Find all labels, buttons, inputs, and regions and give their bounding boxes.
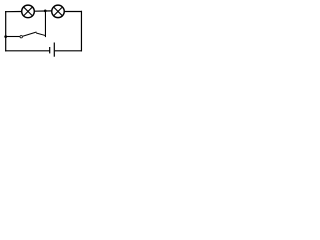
battery cell short plate (negative) (49, 47, 51, 53)
node junction dot between lamps (44, 10, 47, 13)
wire switch branch from left rail (6, 36, 20, 38)
wire left rail (5, 11, 7, 51)
wire vertical drop from node to switch contact (44, 11, 46, 37)
switch S1 blade (open) (23, 32, 37, 36)
lamp L1 (22, 5, 35, 18)
wire top rail middle segment (35, 10, 52, 12)
wire bottom rail right segment (55, 50, 82, 52)
switch S1 hinge terminal circle (20, 35, 23, 38)
wire bottom rail left segment (5, 50, 50, 52)
node junction dot on left rail (4, 35, 7, 38)
battery cell long plate (positive) (53, 43, 55, 57)
wire top rail left segment (5, 11, 22, 13)
wire right rail (80, 11, 82, 52)
switch S1 fixed contact lead (sloped) (36, 33, 45, 36)
wire top rail right segment (65, 11, 82, 13)
lamp L2 (52, 5, 65, 18)
